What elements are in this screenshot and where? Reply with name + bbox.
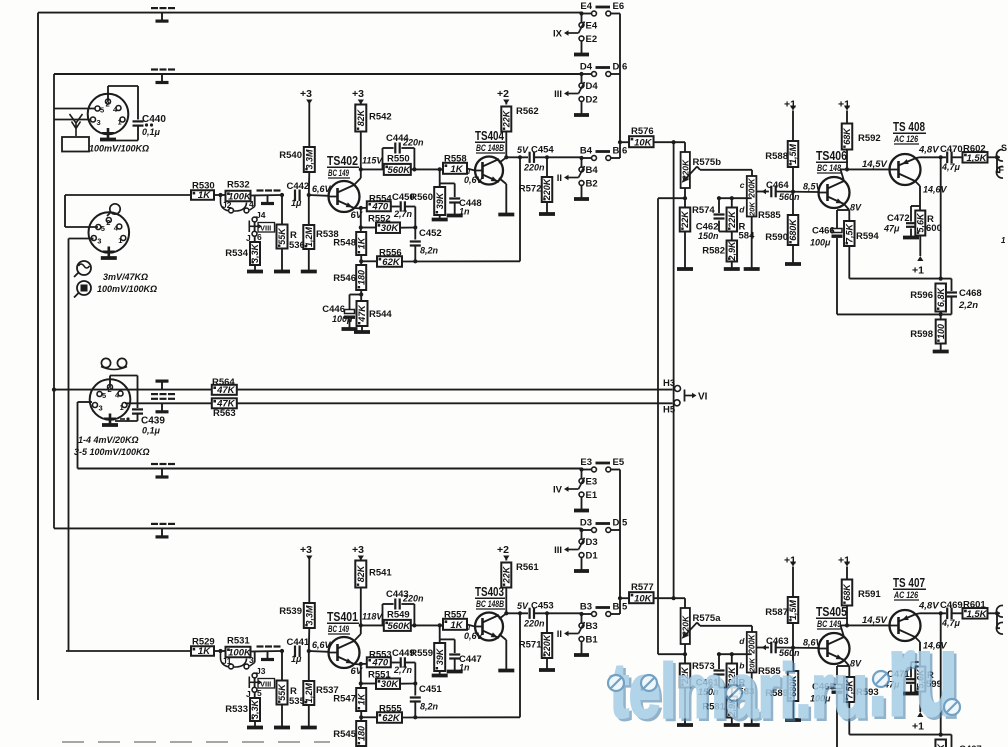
svg-text:R553: R553 xyxy=(369,650,392,661)
svg-text:C450: C450 xyxy=(392,192,415,203)
svg-text:R585: R585 xyxy=(758,210,781,221)
svg-text:R545: R545 xyxy=(333,729,356,740)
svg-text:III: III xyxy=(554,89,562,100)
svg-text:3,3M: 3,3M xyxy=(305,149,315,170)
svg-text:R590: R590 xyxy=(765,232,788,243)
svg-text:3: 3 xyxy=(97,237,101,246)
svg-text:R564: R564 xyxy=(212,377,235,388)
svg-text:II: II xyxy=(557,629,562,640)
svg-text:BC 148B: BC 148B xyxy=(476,143,504,153)
svg-text:R540: R540 xyxy=(279,150,302,161)
svg-text:C443: C443 xyxy=(386,589,409,600)
svg-text:TS403: TS403 xyxy=(475,585,504,599)
svg-text:+1: +1 xyxy=(838,99,850,111)
svg-text:R563: R563 xyxy=(213,408,236,419)
svg-text:E2: E2 xyxy=(586,34,598,45)
svg-text:600: 600 xyxy=(926,223,942,234)
svg-text:180: 180 xyxy=(356,270,366,285)
svg-text:R576: R576 xyxy=(631,126,654,137)
svg-text:C452: C452 xyxy=(419,228,442,239)
svg-text:1: 1 xyxy=(1001,236,1006,245)
svg-text:+3: +3 xyxy=(352,88,364,100)
svg-text:220K: 220K xyxy=(542,177,552,201)
svg-text:R572: R572 xyxy=(519,184,542,195)
svg-text:55K: 55K xyxy=(277,227,287,245)
svg-text:4: 4 xyxy=(249,199,254,209)
svg-text:R558: R558 xyxy=(444,154,467,165)
svg-text:R548: R548 xyxy=(333,238,356,249)
svg-text:118V: 118V xyxy=(362,612,383,622)
svg-text:C466: C466 xyxy=(812,226,835,237)
svg-text:J4: J4 xyxy=(256,210,266,220)
svg-text:R544: R544 xyxy=(369,309,392,320)
svg-text:535: 535 xyxy=(289,696,306,707)
svg-text:R552: R552 xyxy=(368,214,391,225)
svg-text:C451: C451 xyxy=(419,684,442,695)
svg-text:R556: R556 xyxy=(379,248,402,259)
svg-text:C464: C464 xyxy=(766,180,789,191)
svg-text:5,6K: 5,6K xyxy=(916,212,926,233)
svg-text:R571: R571 xyxy=(519,640,542,651)
svg-text:R598: R598 xyxy=(910,329,933,340)
svg-text:100mV/100KΩ: 100mV/100KΩ xyxy=(97,284,157,294)
svg-text:0,1μ: 0,1μ xyxy=(142,426,161,436)
svg-text:14,5V: 14,5V xyxy=(862,159,887,170)
svg-text:B 5: B 5 xyxy=(613,602,629,613)
svg-text:C470: C470 xyxy=(940,144,963,155)
svg-text:2,9K: 2,9K xyxy=(727,240,737,262)
svg-text:R596: R596 xyxy=(910,290,933,301)
svg-text:R533: R533 xyxy=(225,704,248,715)
svg-text:TS 407: TS 407 xyxy=(893,576,925,590)
svg-text:c: c xyxy=(740,180,745,190)
svg-text:R550: R550 xyxy=(387,154,410,165)
svg-text:R539: R539 xyxy=(279,606,302,617)
svg-text:BC 149: BC 149 xyxy=(328,624,349,634)
svg-text:TS401: TS401 xyxy=(327,610,358,624)
svg-text:VI: VI xyxy=(698,392,708,403)
svg-text:TS 408: TS 408 xyxy=(893,120,925,134)
svg-text:3: 3 xyxy=(99,404,103,413)
svg-text:IV: IV xyxy=(553,485,563,496)
svg-text:R588: R588 xyxy=(765,151,788,162)
svg-text:0,6V: 0,6V xyxy=(464,175,484,185)
svg-text:AC 126: AC 126 xyxy=(893,134,919,144)
svg-text:BC 148B: BC 148B xyxy=(476,599,504,609)
svg-text:1: 1 xyxy=(120,403,124,412)
svg-text:B3: B3 xyxy=(586,621,598,632)
svg-text:1,2M: 1,2M xyxy=(304,226,314,247)
svg-text:5: 5 xyxy=(101,224,105,233)
svg-text:536: 536 xyxy=(289,240,305,251)
svg-text:+3: +3 xyxy=(300,88,312,100)
svg-text:R591: R591 xyxy=(858,589,881,600)
svg-text:R542: R542 xyxy=(369,112,392,123)
svg-text:R575a: R575a xyxy=(693,613,722,624)
svg-text:3,3K: 3,3K xyxy=(250,242,260,263)
svg-text:d: d xyxy=(739,636,745,646)
svg-text:560n: 560n xyxy=(779,192,800,202)
svg-text:J: J xyxy=(246,233,251,243)
svg-text:BC 148: BC 148 xyxy=(817,163,841,173)
svg-text:R577: R577 xyxy=(631,582,654,593)
svg-text:5: 5 xyxy=(257,688,262,698)
svg-text:C449: C449 xyxy=(392,648,415,659)
svg-text:200K: 200K xyxy=(748,177,757,198)
svg-text:C444: C444 xyxy=(386,133,409,144)
svg-text:BC 149: BC 149 xyxy=(328,168,349,178)
svg-text:R551: R551 xyxy=(368,670,391,681)
svg-text:E5: E5 xyxy=(613,457,625,468)
svg-text:TS406: TS406 xyxy=(816,149,847,163)
svg-text:TS404: TS404 xyxy=(475,129,504,143)
svg-text:D4: D4 xyxy=(586,81,599,92)
svg-text:d: d xyxy=(739,205,745,215)
svg-text:E4: E4 xyxy=(586,21,598,32)
svg-text:100μ: 100μ xyxy=(332,314,353,324)
svg-text:D2: D2 xyxy=(586,95,598,106)
svg-text:VIII: VIII xyxy=(260,680,271,689)
svg-text:C448: C448 xyxy=(459,198,482,209)
svg-text:2,2n: 2,2n xyxy=(958,300,978,311)
svg-text:1K: 1K xyxy=(356,236,366,249)
svg-text:R541: R541 xyxy=(369,568,392,579)
svg-text:100mV/100KΩ: 100mV/100KΩ xyxy=(89,144,149,154)
svg-text:R592: R592 xyxy=(858,133,881,144)
svg-text:R554: R554 xyxy=(369,194,392,205)
svg-text:3-5 100mV/100KΩ: 3-5 100mV/100KΩ xyxy=(74,447,150,457)
svg-text:R601: R601 xyxy=(963,600,986,611)
svg-text:100μ: 100μ xyxy=(810,238,831,248)
svg-text:J1: J1 xyxy=(222,656,232,666)
svg-text:R561: R561 xyxy=(516,562,539,573)
svg-text:560K: 560K xyxy=(387,165,411,176)
svg-text:J3: J3 xyxy=(256,666,266,676)
svg-text:R530: R530 xyxy=(192,181,215,192)
svg-text:D4: D4 xyxy=(580,62,593,73)
svg-text:C454: C454 xyxy=(531,145,554,156)
svg-text:R547: R547 xyxy=(333,694,356,705)
svg-text:E1: E1 xyxy=(586,490,598,501)
svg-text:R602: R602 xyxy=(963,144,986,155)
svg-text:B 6: B 6 xyxy=(613,146,628,157)
svg-text:R549: R549 xyxy=(387,610,410,621)
svg-text:E6: E6 xyxy=(613,1,625,12)
svg-text:3: 3 xyxy=(97,118,101,127)
svg-text:C453: C453 xyxy=(531,601,554,612)
svg-text:D 6: D 6 xyxy=(613,62,628,73)
svg-text:100: 100 xyxy=(936,324,946,339)
svg-text:1μ: 1μ xyxy=(291,198,302,208)
svg-text:1-4 4mV/20KΩ: 1-4 4mV/20KΩ xyxy=(78,435,139,445)
svg-text:C472: C472 xyxy=(887,213,910,224)
svg-text:IX: IX xyxy=(553,29,563,40)
svg-text:3: 3 xyxy=(249,655,254,665)
svg-text:TS402: TS402 xyxy=(327,154,358,168)
svg-text:68K: 68K xyxy=(842,127,852,145)
svg-text:R529: R529 xyxy=(192,637,215,648)
svg-text:150n: 150n xyxy=(698,231,719,241)
svg-text:8,6V: 8,6V xyxy=(803,638,823,648)
svg-text:+1: +1 xyxy=(912,265,924,277)
svg-text:5V: 5V xyxy=(517,145,529,155)
svg-text:C463: C463 xyxy=(766,636,789,647)
svg-text:R594: R594 xyxy=(856,231,879,242)
svg-text:8V: 8V xyxy=(850,203,862,213)
svg-text:39K: 39K xyxy=(435,191,445,209)
svg-text:115V: 115V xyxy=(362,156,383,166)
svg-text:47μ: 47μ xyxy=(883,224,900,234)
svg-text:D1: D1 xyxy=(586,551,599,562)
svg-text:S: S xyxy=(1001,143,1007,153)
svg-text:III: III xyxy=(554,545,562,556)
svg-text:4,8V: 4,8V xyxy=(918,145,939,156)
svg-text:8,5V: 8,5V xyxy=(803,182,823,192)
svg-text:E4: E4 xyxy=(580,1,592,12)
svg-text:3mV/47KΩ: 3mV/47KΩ xyxy=(103,272,148,282)
svg-text:B4: B4 xyxy=(580,146,593,157)
svg-text:R557: R557 xyxy=(444,610,467,621)
svg-text:R587: R587 xyxy=(765,607,788,618)
svg-text:14,6V: 14,6V xyxy=(923,185,948,195)
svg-text:20K: 20K xyxy=(748,202,757,217)
svg-text:1: 1 xyxy=(118,236,122,245)
svg-text:8,2n: 8,2n xyxy=(420,246,439,256)
svg-text:584: 584 xyxy=(739,231,756,242)
svg-text:6,8K: 6,8K xyxy=(936,286,946,307)
svg-text:D3: D3 xyxy=(586,537,598,548)
svg-text:AC 126: AC 126 xyxy=(893,590,919,600)
svg-text:+2: +2 xyxy=(497,88,509,100)
svg-text:4,7μ: 4,7μ xyxy=(941,162,961,172)
svg-text:5: 5 xyxy=(102,391,106,400)
svg-text:R574: R574 xyxy=(692,205,715,216)
svg-text:R582: R582 xyxy=(702,246,725,257)
svg-text:R534: R534 xyxy=(225,248,248,259)
svg-text:D3: D3 xyxy=(580,518,592,529)
svg-text:H5: H5 xyxy=(663,405,676,416)
svg-text:BC 149: BC 149 xyxy=(817,619,841,629)
svg-text:J2: J2 xyxy=(222,200,232,210)
svg-text:1K: 1K xyxy=(450,164,463,175)
svg-text:B1: B1 xyxy=(586,635,599,646)
svg-text:C447: C447 xyxy=(459,654,482,665)
svg-text:C440: C440 xyxy=(142,114,166,125)
svg-text:R575b: R575b xyxy=(693,157,722,168)
svg-text:B2: B2 xyxy=(586,179,598,190)
svg-text:C441: C441 xyxy=(287,637,310,648)
svg-text:220n: 220n xyxy=(523,163,545,173)
svg-text:B4: B4 xyxy=(586,165,599,176)
svg-text:C468: C468 xyxy=(959,288,982,299)
svg-text:II: II xyxy=(557,173,562,184)
svg-text:E3: E3 xyxy=(586,477,598,488)
svg-text:VIII: VIII xyxy=(260,224,271,233)
svg-text:D 5: D 5 xyxy=(613,518,629,529)
svg-text:1,5M: 1,5M xyxy=(788,143,798,164)
svg-text:10K: 10K xyxy=(634,137,653,148)
svg-text:R532: R532 xyxy=(227,180,250,191)
svg-text:R546: R546 xyxy=(333,273,356,284)
svg-text:R555: R555 xyxy=(379,704,402,715)
svg-text:82K: 82K xyxy=(356,108,366,126)
svg-text:0,1μ: 0,1μ xyxy=(142,127,161,137)
svg-text:22K: 22K xyxy=(727,210,737,229)
svg-text:22K: 22K xyxy=(680,210,690,229)
svg-text:1: 1 xyxy=(118,118,122,127)
svg-text:5: 5 xyxy=(100,106,104,115)
svg-text:2,7n: 2,7n xyxy=(393,209,413,219)
svg-text:R562: R562 xyxy=(516,106,539,117)
svg-text:30K: 30K xyxy=(381,223,400,234)
svg-text:B3: B3 xyxy=(580,602,592,613)
svg-text:R531: R531 xyxy=(227,636,250,647)
svg-text:C442: C442 xyxy=(287,181,310,192)
svg-text:F: F xyxy=(999,165,1005,175)
svg-text:2: 2 xyxy=(106,218,110,227)
svg-text:47K: 47K xyxy=(357,304,367,323)
svg-text:1K: 1K xyxy=(198,190,211,201)
svg-text:7,5K: 7,5K xyxy=(845,222,855,243)
svg-text:J: J xyxy=(246,689,251,699)
svg-text:62K: 62K xyxy=(382,257,401,268)
svg-text:TS405: TS405 xyxy=(816,605,847,619)
svg-text:H3: H3 xyxy=(663,378,675,389)
svg-text:E3: E3 xyxy=(580,457,592,468)
svg-text:680K: 680K xyxy=(788,218,798,241)
svg-text:+1: +1 xyxy=(784,99,796,111)
svg-text:6,6V: 6,6V xyxy=(312,184,332,194)
svg-text:22K: 22K xyxy=(502,109,512,128)
svg-text:6: 6 xyxy=(257,232,262,242)
